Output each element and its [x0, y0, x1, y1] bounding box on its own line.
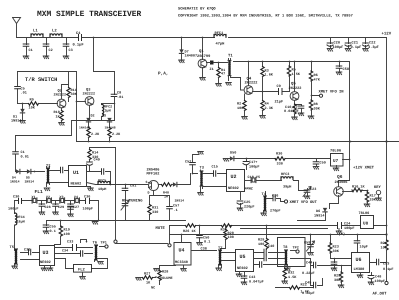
- svg-text:T2: T2: [46, 164, 50, 169]
- svg-text:C48: C48: [375, 275, 381, 280]
- svg-text:0.22µF: 0.22µF: [302, 291, 315, 296]
- svg-text:R28: R28: [162, 270, 168, 275]
- svg-text:10µF: 10µF: [360, 245, 368, 250]
- svg-text:2.2K: 2.2K: [91, 132, 100, 137]
- svg-text:330: 330: [277, 162, 283, 167]
- svg-text:D: D: [148, 191, 150, 195]
- svg-text:100: 100: [64, 232, 70, 237]
- svg-text:1N914: 1N914: [25, 180, 35, 184]
- svg-text:C4: C4: [76, 31, 81, 36]
- svg-text:1N914: 1N914: [10, 180, 20, 184]
- svg-text:0.22µF: 0.22µF: [302, 271, 315, 276]
- svg-text:NE602: NE602: [71, 182, 82, 187]
- svg-text:30K: 30K: [314, 107, 321, 112]
- svg-text:S: S: [146, 180, 148, 184]
- svg-text:C25: C25: [244, 200, 250, 205]
- svg-text:.1: .1: [174, 208, 178, 213]
- svg-text:100µF: 100µF: [344, 226, 355, 231]
- svg-text:C49: C49: [94, 158, 100, 163]
- svg-text:100: 100: [228, 235, 234, 240]
- svg-text:T6: T6: [93, 241, 97, 246]
- svg-text:U7: U7: [333, 159, 339, 164]
- svg-text:XMET VFO OUT: XMET VFO OUT: [290, 200, 318, 205]
- svg-text:Y4: Y4: [74, 195, 78, 200]
- svg-text:MPF102: MPF102: [147, 172, 160, 177]
- svg-text:AF_OUT: AF_OUT: [373, 292, 388, 297]
- svg-text:1.6K: 1.6K: [265, 73, 274, 78]
- svg-text:0.1µF: 0.1µF: [73, 43, 84, 48]
- svg-text:C8: C8: [117, 91, 121, 96]
- svg-text:T8: T8: [283, 245, 288, 250]
- svg-text:C30: C30: [13, 195, 19, 200]
- svg-text:100pF: 100pF: [83, 207, 94, 212]
- svg-text:30K: 30K: [334, 278, 341, 283]
- svg-text:C26: C26: [272, 194, 278, 199]
- svg-text:C36: C36: [84, 195, 90, 200]
- svg-text:MUTE: MUTE: [156, 226, 166, 231]
- svg-text:RFC5: RFC5: [98, 179, 106, 184]
- svg-text:1N4007: 1N4007: [185, 54, 198, 59]
- svg-text:C32: C32: [24, 248, 30, 253]
- svg-text:FL2: FL2: [78, 268, 86, 273]
- svg-text:C3: C3: [69, 48, 73, 53]
- svg-text:0.047µF: 0.047µF: [284, 109, 299, 114]
- svg-text:Z1: Z1: [210, 67, 214, 72]
- svg-text:330: 330: [152, 210, 158, 215]
- svg-text:3.3µF: 3.3µF: [368, 45, 379, 50]
- svg-text:R32: R32: [288, 271, 294, 276]
- svg-text:C44: C44: [306, 261, 312, 266]
- svg-text:Y3: Y3: [60, 195, 64, 200]
- svg-text:C20: C20: [334, 41, 340, 46]
- svg-text:C24: C24: [344, 222, 350, 227]
- svg-text:C40: C40: [268, 244, 274, 249]
- svg-text:1N914: 1N914: [11, 119, 22, 124]
- svg-text:C33: C33: [67, 240, 73, 245]
- svg-text:47: 47: [221, 72, 225, 77]
- svg-text:2N2222: 2N2222: [289, 86, 302, 91]
- svg-text:COPYRIGHT 1992,1993,1994 BY MX: COPYRIGHT 1992,1993,1994 BY MXM INDUSTRI…: [178, 14, 353, 19]
- svg-text:U8: U8: [363, 222, 369, 227]
- svg-text:100µF: 100µF: [375, 279, 386, 284]
- svg-text:C34: C34: [62, 249, 68, 254]
- svg-text:R4: R4: [265, 102, 269, 107]
- svg-text:R26 1K: R26 1K: [183, 229, 197, 234]
- svg-text:MXM SIMPLE TRANSCEIVER: MXM SIMPLE TRANSCEIVER: [37, 10, 141, 19]
- svg-text:R24: R24: [381, 241, 387, 246]
- svg-text:U3: U3: [43, 250, 49, 256]
- svg-text:NE602: NE602: [40, 260, 51, 265]
- svg-text:Y2: Y2: [46, 195, 50, 200]
- svg-text:2N2222: 2N2222: [245, 81, 258, 86]
- svg-text:220µF: 220µF: [244, 205, 255, 210]
- svg-text:R2: R2: [237, 102, 241, 107]
- svg-text:KEY: KEY: [374, 185, 382, 190]
- svg-text:C17+: C17+: [249, 160, 257, 165]
- svg-text:C9: C9: [277, 84, 281, 89]
- svg-text:R23: R23: [333, 245, 339, 250]
- svg-text:R8: R8: [314, 102, 318, 107]
- svg-text:R31: R31: [152, 206, 158, 211]
- svg-text:T3: T3: [200, 166, 205, 171]
- svg-text:270pF: 270pF: [270, 209, 281, 214]
- svg-text:Q5: Q5: [291, 82, 296, 87]
- svg-text:30K: 30K: [333, 249, 340, 254]
- svg-text:1.5K: 1.5K: [292, 72, 301, 77]
- svg-text:R16 1K: R16 1K: [352, 185, 366, 190]
- svg-text:U2: U2: [231, 174, 237, 180]
- svg-text:C22: C22: [369, 41, 375, 46]
- svg-text:R29: R29: [258, 238, 264, 243]
- svg-text:100: 100: [258, 242, 264, 247]
- svg-text:RF TUNING: RF TUNING: [122, 199, 143, 204]
- svg-text:T/R SWITCH: T/R SWITCH: [25, 77, 57, 83]
- svg-text:2.2K: 2.2K: [112, 132, 121, 137]
- svg-text:4MHZ: 4MHZ: [245, 187, 253, 192]
- svg-text:LM380: LM380: [354, 267, 365, 272]
- svg-text:R5: R5: [292, 68, 296, 73]
- svg-text:+12V: +12V: [382, 32, 392, 37]
- svg-text:C1: C1: [29, 48, 33, 53]
- svg-text:RFC3: RFC3: [281, 172, 289, 177]
- svg-text:R14: R14: [92, 151, 98, 156]
- svg-text:R10: R10: [54, 110, 60, 115]
- svg-text:D2: D2: [91, 114, 95, 119]
- svg-text:FL1: FL1: [35, 189, 44, 195]
- svg-text:C59: C59: [320, 161, 326, 166]
- svg-text:D6: D6: [316, 209, 320, 214]
- svg-text:R27: R27: [144, 272, 150, 277]
- svg-text:C21: C21: [352, 41, 358, 46]
- svg-text:D50: D50: [230, 151, 236, 156]
- svg-text:NC: NC: [151, 286, 155, 291]
- svg-text:C58: C58: [343, 67, 349, 72]
- svg-text:SCHEMATIC BY K7QO: SCHEMATIC BY K7QO: [178, 7, 216, 12]
- svg-text:C51: C51: [130, 184, 136, 189]
- svg-text:2.3K: 2.3K: [265, 106, 274, 111]
- svg-text:U5: U5: [240, 254, 246, 260]
- svg-text:10µH: 10µH: [98, 187, 106, 192]
- svg-text:2N2222: 2N2222: [83, 92, 96, 97]
- svg-text:C57: C57: [173, 204, 179, 209]
- svg-text:0.1: 0.1: [50, 229, 56, 234]
- svg-text:L2: L2: [52, 29, 57, 34]
- svg-text:L1: L1: [33, 29, 38, 34]
- svg-text:1N914: 1N914: [314, 213, 325, 218]
- svg-text:2N3906: 2N3906: [335, 180, 348, 185]
- svg-text:NE602: NE602: [228, 186, 239, 191]
- svg-text:100: 100: [381, 246, 387, 251]
- svg-text:21pF: 21pF: [275, 100, 284, 105]
- svg-text:C1: C1: [21, 150, 25, 155]
- svg-text:1N4148: 1N4148: [105, 126, 116, 130]
- svg-text:RFC1: RFC1: [215, 31, 225, 36]
- svg-text:C18 Y5: C18 Y5: [248, 175, 261, 180]
- svg-text:RFC4: RFC4: [17, 215, 25, 220]
- svg-text:VOLUME: VOLUME: [160, 276, 173, 281]
- svg-text:NE602: NE602: [237, 266, 248, 271]
- svg-text:C28: C28: [45, 205, 51, 210]
- svg-text:3µH: 3µH: [105, 109, 111, 114]
- svg-text:+12V XMET: +12V XMET: [353, 166, 375, 171]
- svg-text:100: 100: [237, 106, 243, 111]
- svg-text:Q1: Q1: [199, 49, 204, 54]
- svg-text:R30: R30: [276, 152, 282, 157]
- svg-text:0.1µF: 0.1µF: [383, 267, 394, 272]
- svg-text:C27: C27: [73, 205, 79, 210]
- svg-text:C55: C55: [50, 225, 56, 230]
- svg-text:U6: U6: [356, 257, 362, 263]
- svg-text:100µF: 100µF: [8, 207, 19, 212]
- svg-text:1N914: 1N914: [175, 199, 185, 203]
- svg-text:MC3340: MC3340: [175, 260, 188, 265]
- svg-text:2SC799: 2SC799: [197, 54, 210, 59]
- svg-text:U1: U1: [73, 170, 79, 176]
- svg-text:30K: 30K: [71, 92, 78, 97]
- svg-text:C29: C29: [58, 205, 64, 210]
- svg-text:XMET VFO IN: XMET VFO IN: [319, 90, 345, 95]
- svg-text:D3: D3: [102, 114, 106, 119]
- svg-text:T4: T4: [262, 192, 267, 197]
- svg-text:R6: R6: [314, 73, 318, 78]
- svg-text:C52: C52: [185, 160, 191, 165]
- svg-text:100µF: 100µF: [249, 165, 260, 170]
- svg-text:47K: 47K: [314, 78, 321, 83]
- svg-text:18µH: 18µH: [17, 219, 25, 224]
- svg-text:C23: C23: [310, 187, 316, 192]
- svg-text:0.1µF: 0.1µF: [351, 45, 362, 50]
- svg-text:0.047µF: 0.047µF: [249, 279, 264, 284]
- svg-text:39µH: 39µH: [283, 185, 291, 190]
- svg-text:T1: T1: [228, 54, 233, 59]
- svg-text:C43: C43: [249, 275, 255, 280]
- svg-text:.01: .01: [21, 91, 27, 96]
- svg-text:1.5K: 1.5K: [288, 275, 297, 280]
- svg-text:2N2222: 2N2222: [54, 93, 67, 98]
- svg-text:0.01: 0.01: [21, 154, 29, 159]
- svg-text:R9: R9: [30, 98, 34, 103]
- svg-text:100µF: 100µF: [333, 45, 344, 50]
- svg-text:.01: .01: [117, 95, 123, 100]
- svg-text:R19: R19: [64, 228, 70, 233]
- svg-text:R25: R25: [334, 274, 340, 279]
- svg-text:C15: C15: [212, 165, 218, 170]
- svg-text:R59: R59: [304, 241, 310, 246]
- svg-text:P,A,: P,A,: [158, 72, 169, 77]
- svg-text:78L06: 78L06: [330, 149, 341, 154]
- svg-text:0.1: 0.1: [204, 240, 210, 245]
- svg-text:C2: C2: [49, 48, 53, 53]
- svg-text:C45: C45: [305, 281, 311, 286]
- svg-text:47µH: 47µH: [216, 42, 225, 47]
- svg-text:U4: U4: [179, 248, 185, 254]
- svg-text:1N4148: 1N4148: [79, 126, 90, 130]
- svg-text:10K: 10K: [29, 106, 36, 111]
- svg-text:Q6: Q6: [337, 174, 343, 180]
- svg-text:Y1: Y1: [32, 195, 36, 200]
- svg-text:T5: T5: [10, 245, 15, 250]
